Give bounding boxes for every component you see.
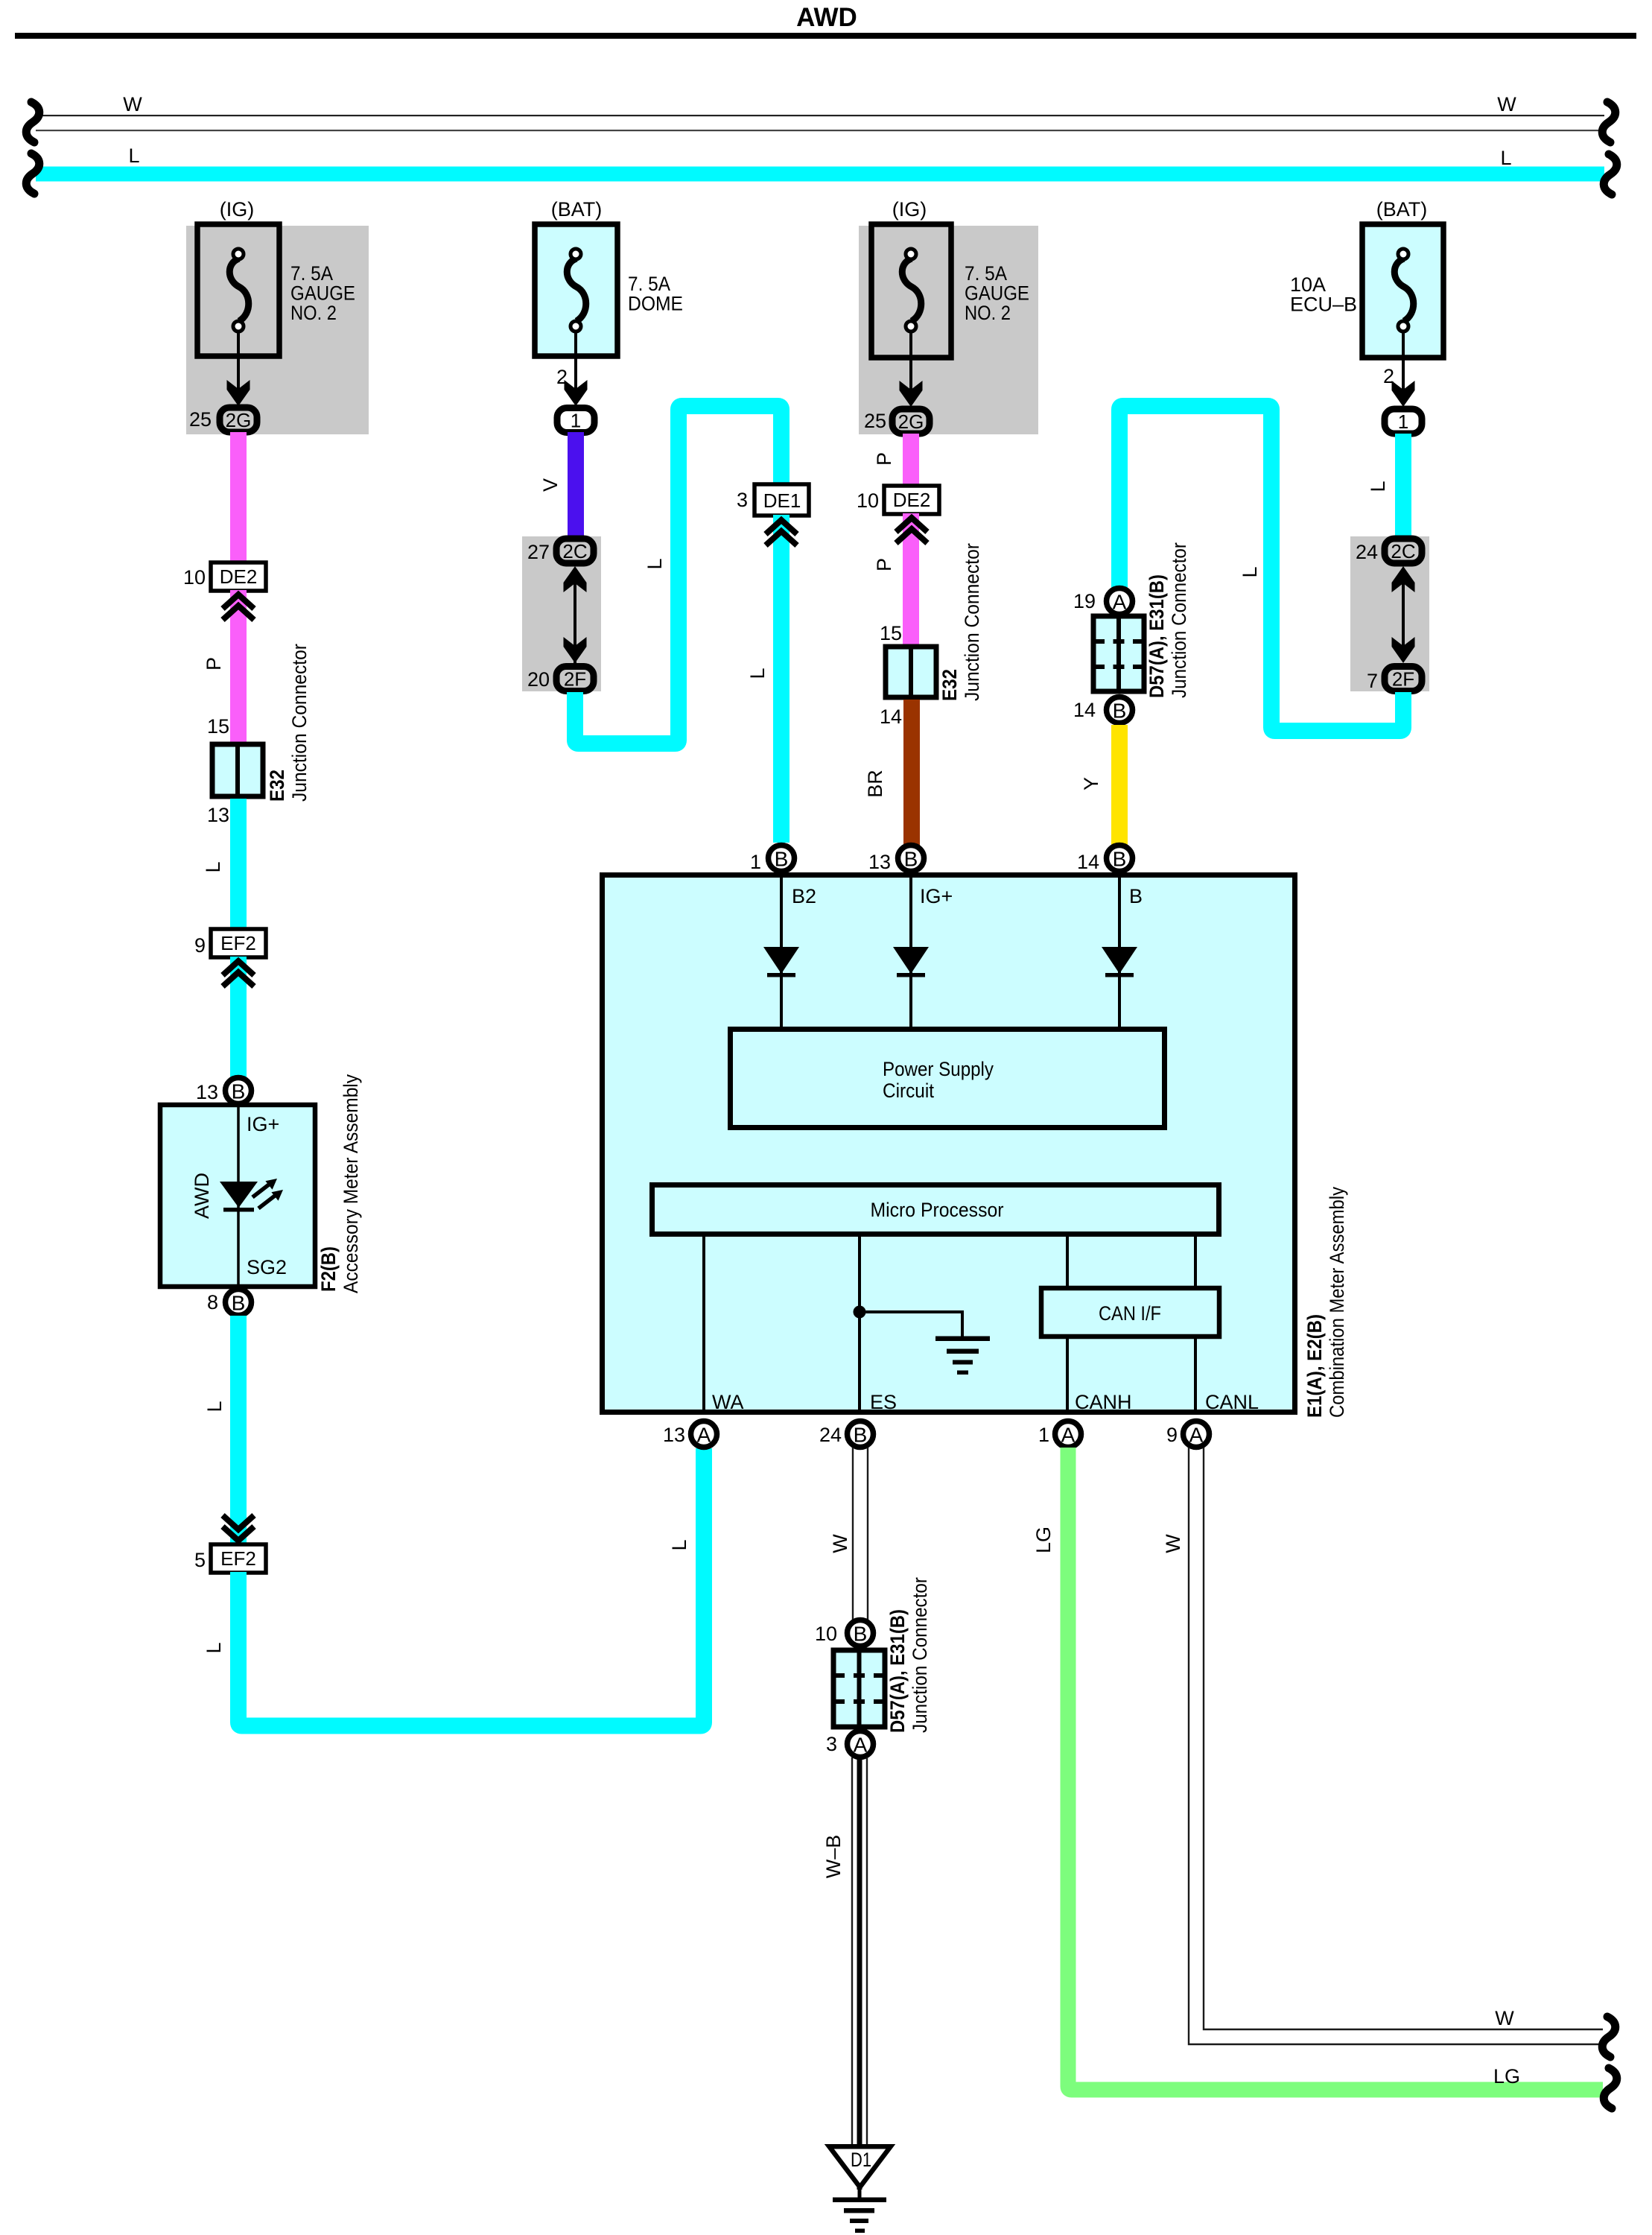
svg-text:W: W: [1497, 93, 1516, 115]
svg-text:WA: WA: [712, 1391, 744, 1413]
wire MP to WA pin: [702, 1234, 705, 1415]
svg-text:(BAT): (BAT): [551, 198, 603, 221]
junction connector D57(A) E31(B) top: [1093, 616, 1144, 691]
svg-text:DOME: DOME: [628, 293, 683, 315]
svg-text:13: 13: [868, 851, 891, 873]
squiggle right of bus L: [1604, 154, 1617, 194]
chevron below EF2 col1: [223, 961, 254, 986]
svg-text:15: 15: [880, 622, 902, 644]
svg-text:SG2: SG2: [247, 1256, 287, 1278]
bus W (white wire, drawn as double line): [36, 115, 1604, 116]
connector DE2 (col3): [884, 486, 939, 514]
wire P from 2G to DE2 (col1, pink): [230, 432, 247, 562]
svg-text:B: B: [1129, 885, 1143, 907]
wire L from EF2-5 to meter pin 13A (cyan, U route): [238, 1448, 704, 1726]
wire L from EF2 to meter (col1, cyan): [230, 957, 247, 1079]
wire fuse F1 to connector 2G: [237, 331, 240, 390]
wire ES to internal ground: [860, 1312, 962, 1337]
wire CAN I/F to CANH pin: [1066, 1337, 1069, 1415]
connector DE2 (col1): [211, 562, 266, 591]
svg-text:13: 13: [196, 1081, 218, 1103]
svg-text:DE1: DE1: [763, 489, 801, 512]
svg-text:25: 25: [864, 410, 886, 432]
wire MP to CAN I/F right: [1194, 1234, 1197, 1288]
svg-text:D1: D1: [851, 2149, 871, 2171]
svg-text:P: P: [873, 558, 895, 571]
svg-text:9: 9: [194, 934, 206, 957]
svg-text:L: L: [203, 1401, 226, 1412]
svg-text:W: W: [829, 1534, 851, 1553]
ground bars D1: [858, 2190, 862, 2198]
diode D-B2: [763, 947, 799, 977]
wire MP to CAN I/F left: [1066, 1234, 1069, 1288]
wire L from 2F col2 looping up to DE1 (cyan): [575, 406, 781, 744]
squiggle left of bus L: [26, 153, 39, 194]
pin circle B (B input): [1107, 846, 1133, 872]
pin circle B (ES): [848, 1421, 874, 1448]
diode D-B: [1102, 947, 1137, 977]
svg-text:AWD: AWD: [796, 3, 857, 32]
svg-text:27: 27: [527, 541, 550, 563]
svg-text:2G: 2G: [898, 410, 924, 433]
svg-text:L: L: [668, 1539, 690, 1550]
svg-text:W: W: [1162, 1534, 1184, 1553]
svg-text:L: L: [644, 558, 666, 569]
wire Y from D57 to pin 14B (yellow): [1111, 725, 1128, 846]
svg-text:B: B: [1113, 848, 1127, 871]
CAN I/F box: [1041, 1288, 1219, 1337]
chevron below DE1: [766, 520, 797, 545]
internal ground symbol: [935, 1337, 990, 1375]
wire L from 2F col4 looping to junction D57 (cyan): [1119, 406, 1403, 731]
svg-text:F2(B): F2(B): [317, 1246, 340, 1292]
wire CAN I/F to CANL pin: [1194, 1337, 1197, 1415]
svg-text:7. 5A: 7. 5A: [290, 262, 333, 285]
connector DE1: [754, 484, 809, 516]
wire LG from CANH pin to right edge (light green): [1068, 1448, 1603, 2090]
svg-text:1: 1: [1398, 410, 1408, 433]
svg-text:2F: 2F: [564, 668, 586, 691]
pin circle A (CANL): [1184, 1421, 1210, 1448]
svg-text:Junction Connector: Junction Connector: [1168, 542, 1190, 698]
svg-text:W: W: [123, 93, 142, 115]
wire V from oval 1 to 2C (col2, violet): [568, 432, 584, 538]
bus L (cyan): [36, 167, 1604, 182]
svg-text:Junction Connector: Junction Connector: [288, 644, 311, 802]
svg-text:Combination Meter Assembly: Combination Meter Assembly: [1326, 1187, 1348, 1418]
svg-text:(IG): (IG): [220, 198, 255, 221]
pin circle B (D57 bottom): [1107, 697, 1133, 723]
svg-text:IG+: IG+: [920, 885, 953, 907]
svg-text:10: 10: [815, 1623, 837, 1645]
svg-text:NO. 2: NO. 2: [965, 302, 1011, 324]
svg-text:9: 9: [1166, 1424, 1178, 1446]
svg-text:2F: 2F: [1392, 668, 1414, 691]
svg-text:CANH: CANH: [1075, 1391, 1132, 1413]
svg-text:B2: B2: [792, 885, 816, 907]
connector oval 1 (ECU-B): [1385, 409, 1422, 434]
chevron above EF2-5 (pointing down): [223, 1515, 254, 1541]
pin circle A (D57 bottom junction): [848, 1731, 874, 1757]
connector EF2 (5): [211, 1544, 266, 1573]
svg-text:E32: E32: [938, 669, 961, 701]
svg-text:L: L: [1239, 566, 1261, 577]
svg-text:D57(A), E31(B): D57(A), E31(B): [1146, 574, 1168, 698]
svg-text:GAUGE: GAUGE: [965, 282, 1029, 305]
pin circle A (D57 top): [1107, 589, 1133, 615]
svg-text:P: P: [203, 657, 225, 670]
svg-text:7: 7: [1367, 670, 1378, 692]
grey background box 2C-2F connector right: [1350, 536, 1429, 691]
svg-text:B: B: [854, 1424, 868, 1447]
svg-text:10: 10: [857, 489, 879, 512]
pin circle B (B2 input): [769, 846, 795, 872]
connector EF2 (col1): [211, 929, 266, 957]
junction connector D57(A) E31(B) bottom: [833, 1650, 885, 1727]
svg-text:8: 8: [207, 1291, 218, 1313]
svg-text:CANL: CANL: [1205, 1391, 1259, 1413]
grey background box fuse GAUGE NO.2 right: [859, 226, 1038, 434]
svg-text:AWD: AWD: [191, 1173, 213, 1219]
svg-text:L: L: [202, 861, 224, 872]
svg-text:B: B: [232, 1292, 246, 1315]
wire B2 to diode: [780, 878, 783, 1029]
pin circle B (meter bottom): [226, 1290, 252, 1316]
connector oval 2C (col4): [1385, 539, 1422, 563]
pin circle B (meter top): [226, 1078, 252, 1104]
svg-text:GAUGE: GAUGE: [290, 282, 355, 305]
svg-text:ECU–B: ECU–B: [1290, 294, 1357, 316]
svg-text:1: 1: [1038, 1424, 1049, 1446]
junction dot ES: [854, 1306, 866, 1319]
connector oval 2F (col2): [556, 667, 594, 691]
svg-text:NO. 2: NO. 2: [290, 302, 337, 324]
svg-text:13: 13: [207, 804, 229, 826]
svg-text:D57(A), E31(B): D57(A), E31(B): [886, 1609, 909, 1733]
wire L from meter to EF2-5 (cyan): [230, 1316, 247, 1544]
svg-text:24: 24: [1356, 541, 1378, 563]
connector oval 2G (F3): [892, 409, 930, 434]
pin circle B (D57 bottom junction top): [848, 1620, 874, 1646]
micro processor box: [652, 1185, 1219, 1234]
svg-text:1: 1: [571, 410, 581, 432]
accessory meter assembly box F2(B): [160, 1105, 315, 1287]
squiggle right of bus W: [1602, 102, 1616, 142]
svg-text:19: 19: [1073, 590, 1096, 612]
wire B to diode: [1118, 878, 1121, 1029]
svg-text:DE2: DE2: [220, 565, 258, 588]
grey background box 2C-2F connector left: [522, 536, 601, 691]
svg-text:10A: 10A: [1290, 273, 1326, 296]
chevron below DE2 col1: [223, 595, 254, 620]
svg-text:B: B: [904, 848, 918, 871]
power supply circuit box: [731, 1030, 1165, 1128]
svg-text:W–B: W–B: [822, 1835, 845, 1879]
squiggle left of bus W: [26, 102, 39, 142]
svg-text:EF2: EF2: [220, 932, 256, 954]
wire W-B from junction to ground D1: [852, 1757, 867, 2190]
ground D1 triangle: [829, 2146, 890, 2187]
svg-text:7. 5A: 7. 5A: [628, 273, 670, 295]
fuse F2 7.5A DOME: [535, 224, 617, 356]
svg-text:L: L: [1367, 481, 1389, 492]
svg-text:A: A: [1113, 591, 1127, 614]
svg-text:(BAT): (BAT): [1376, 198, 1428, 221]
svg-text:13: 13: [663, 1424, 685, 1446]
svg-text:DE2: DE2: [893, 489, 931, 511]
svg-text:7. 5A: 7. 5A: [965, 262, 1007, 285]
combination meter assembly box E1(A) E2(B): [603, 875, 1295, 1413]
svg-text:(IG): (IG): [892, 198, 927, 221]
arrow between 2C and 2F (col2): [564, 566, 587, 663]
internal wire in meter: [237, 1105, 240, 1287]
svg-text:Power Supply: Power Supply: [883, 1058, 994, 1080]
svg-text:15: 15: [207, 715, 229, 738]
chevron below DE2 col3: [896, 518, 927, 543]
svg-text:B: B: [854, 1623, 868, 1646]
svg-text:14: 14: [880, 706, 902, 728]
svg-text:B: B: [1113, 700, 1127, 723]
svg-text:L: L: [203, 1642, 225, 1653]
title underline bar: [15, 33, 1636, 39]
connector oval 2G (F1): [220, 408, 257, 432]
svg-text:Circuit: Circuit: [883, 1080, 934, 1102]
svg-text:A: A: [1061, 1424, 1076, 1447]
wire L from DE1 down to pin 1B (cyan): [773, 515, 790, 843]
svg-text:ES: ES: [870, 1391, 897, 1413]
svg-text:P: P: [873, 452, 895, 466]
svg-text:Y: Y: [1080, 777, 1102, 790]
pin circle A (WA): [691, 1421, 717, 1448]
svg-text:2C: 2C: [1391, 540, 1415, 562]
wire fuse F3 to connector 2G: [909, 332, 912, 390]
wire W from CANL pin to right edge (white double line): [1189, 1448, 1603, 2044]
svg-text:CAN I/F: CAN I/F: [1099, 1302, 1161, 1325]
junction connector E32 (col1): [212, 744, 263, 796]
svg-text:V: V: [539, 478, 562, 492]
wire fuse F4 to connector 1: [1402, 332, 1405, 390]
svg-text:20: 20: [527, 668, 550, 691]
wire fuse F2 to connector 1: [574, 331, 577, 390]
squiggle right of W wire: [1602, 2017, 1616, 2057]
svg-text:LG: LG: [1493, 2065, 1520, 2087]
svg-text:Micro Processor: Micro Processor: [871, 1199, 1004, 1221]
junction connector E32 (col3): [886, 647, 936, 697]
svg-text:2C: 2C: [562, 540, 587, 562]
arrow between 2C and 2F (col4): [1392, 566, 1415, 663]
connector oval 2F (col4): [1385, 667, 1422, 691]
connector oval 2C (col2): [556, 539, 594, 563]
svg-text:14: 14: [1073, 699, 1096, 721]
squiggle right of LG wire: [1604, 2068, 1617, 2108]
svg-text:A: A: [697, 1424, 711, 1447]
fuse F4 10A ECU-B: [1362, 224, 1443, 358]
pin circle B (IG+ input): [898, 846, 924, 872]
diode D-IG: [893, 947, 929, 977]
svg-text:Accessory Meter Assembly: Accessory Meter Assembly: [340, 1074, 362, 1293]
svg-text:BR: BR: [864, 770, 886, 798]
svg-text:3: 3: [737, 489, 748, 511]
svg-text:B: B: [232, 1080, 246, 1103]
wire MP to ES pin: [858, 1234, 861, 1415]
wire L from oval 1 to 2C (col4, cyan): [1395, 434, 1411, 538]
svg-text:3: 3: [826, 1733, 837, 1755]
svg-text:14: 14: [1077, 851, 1099, 873]
svg-text:L: L: [1500, 147, 1511, 169]
svg-text:A: A: [1189, 1424, 1204, 1447]
svg-text:LG: LG: [1032, 1527, 1055, 1553]
LED AWD symbol: [220, 1179, 283, 1212]
wire P from DE2 to E32 (col1, pink): [230, 590, 247, 743]
svg-text:Junction Connector: Junction Connector: [909, 1577, 931, 1733]
svg-text:Junction Connector: Junction Connector: [961, 543, 983, 701]
wire L from E32 to EF2 (col1, cyan): [230, 799, 247, 930]
svg-text:W: W: [1495, 2007, 1514, 2029]
svg-text:L: L: [746, 668, 769, 679]
fuse F1 7.5A GAUGE NO.2: [197, 224, 279, 356]
svg-text:25: 25: [189, 408, 212, 431]
svg-text:1: 1: [750, 851, 761, 873]
wire BR from E32 to pin 13B (brown): [903, 700, 920, 846]
svg-text:IG+: IG+: [247, 1113, 279, 1135]
wire P from 2G to DE2 (col3, pink): [903, 434, 919, 487]
svg-text:2G: 2G: [226, 409, 252, 431]
connector oval 1 (DOME): [557, 408, 594, 433]
svg-text:E32: E32: [266, 770, 288, 802]
grey background box fuse GAUGE NO.2 left: [186, 226, 369, 434]
svg-text:L: L: [128, 145, 139, 167]
svg-text:A: A: [854, 1734, 868, 1757]
svg-text:E1(A), E2(B): E1(A), E2(B): [1303, 1314, 1326, 1418]
fuse F3 7.5A GAUGE NO.2: [871, 224, 951, 358]
svg-text:10: 10: [183, 566, 206, 589]
wire P from DE2 to E32 (col3, pink): [903, 513, 919, 647]
svg-text:5: 5: [194, 1549, 206, 1571]
wire IG+ to diode: [909, 878, 912, 1029]
wire W from ES pin to junction (white double line): [853, 1448, 868, 1620]
svg-text:B: B: [775, 848, 789, 871]
pin circle A (CANH): [1055, 1421, 1081, 1448]
svg-text:EF2: EF2: [220, 1547, 256, 1570]
svg-text:24: 24: [819, 1424, 842, 1446]
